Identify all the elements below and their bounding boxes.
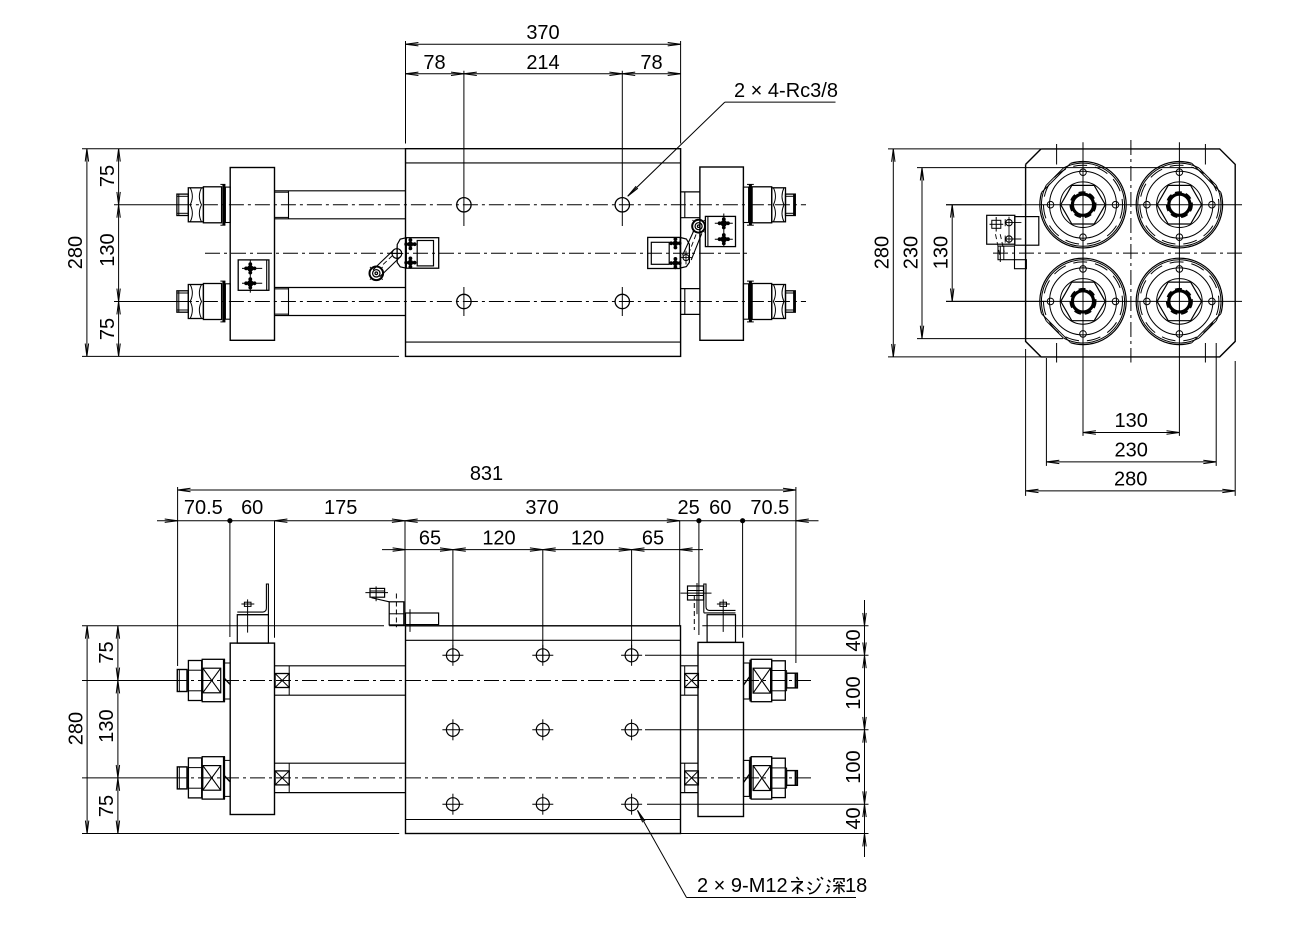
end view: hole axis horizontal upper [946,204,1242,206]
top view: right toggle clamp bracket [648,237,681,268]
front view: right bearing cross square [753,766,771,791]
dim 280 end view left: extensions [888,148,1041,150]
front view: right bearing cross square [753,668,771,693]
front view: left rod tip [177,767,187,789]
top view: left box screw 2 [247,280,253,286]
svg-text:370: 370 [525,497,558,519]
front view: rod tube left [275,665,406,667]
top view: left rod threaded tip [177,194,188,215]
dim row2: dimension line [157,520,819,522]
front view: right bearing block [751,757,772,799]
front view: right hex nut [772,661,786,700]
end view: boss phantom circle [1140,165,1219,244]
svg-text:280: 280 [872,236,894,269]
front view: right flange spacer [744,663,750,699]
top view: left clamp pivot [392,249,402,259]
end view: rod hex nut [1157,282,1202,321]
svg-text:78: 78 [640,52,662,74]
front view: rod tube right [681,762,699,764]
front view: 3x3 grid of M12 holes [446,649,459,662]
top view: port hole C [457,294,471,308]
end view: hole axis vertical right column [1178,142,1180,436]
end view: rod thread circle [1070,192,1095,217]
svg-text:370: 370 [526,22,559,44]
top view: right flange spacer [743,284,748,319]
top view: right mount flange bar [749,281,752,322]
top view: left flange spacer [225,187,230,222]
leader 2x4-Rc3/8 [725,101,836,103]
front view: rod tube left [275,762,406,764]
end view: vent holes [1047,201,1054,208]
svg-text:65: 65 [642,527,664,549]
end view: corner flat chamfer lines [1192,314,1221,343]
top view: right flange spacer [743,187,748,222]
end view: corner flat chamfer lines [1042,314,1071,343]
front view: rod bearing left (crossed square) [275,674,289,688]
top view: middle centerline [205,252,750,254]
top view: rod collar step [288,191,290,219]
top view: left clamp knob [370,267,384,281]
front view: body upper inner edge [406,639,681,641]
top view: right hex nut [772,285,786,319]
top view: right box screw 1 [721,220,727,226]
dim 75/130/75 top view: dimension line [118,149,120,357]
svg-text:230: 230 [1115,439,1148,461]
top view: left hex nut [188,188,203,222]
end view: boss phantom circle [1044,165,1123,244]
svg-text:130: 130 [97,233,119,266]
top view: left box screw 1 [247,265,253,271]
end view: rod hex nut [1061,282,1106,321]
dim 280 end view left: dimension line [892,149,894,357]
top view: right clamp mount plate [680,238,689,269]
front view: left mount tabs and weld mark [224,759,230,761]
front view: right hex nut [772,758,786,797]
end view: rod core circle [1169,291,1190,312]
top view: rod centerline lower [114,301,177,303]
dim 78/214/78: extension lines [463,71,465,226]
svg-text:60: 60 [241,497,263,519]
front view: right plate clamp handle grip [688,586,704,600]
front view: left plate clamp mount block [237,615,268,643]
svg-text:831: 831 [470,463,503,485]
svg-text:120: 120 [482,527,515,549]
dim row 65/120/120/65: extension lines [452,550,454,662]
dim 230 end view bottom: dimension line [1046,461,1216,463]
end view: rod hex nut [1157,185,1202,224]
front view: left end plate [230,643,274,814]
svg-text:130: 130 [931,236,953,269]
top view: rod boss right [681,191,700,193]
top view: right rod threaded tip [786,194,796,215]
dim 831: dimension line [178,489,796,491]
end view: rod thread circle [1167,192,1192,217]
front view: left bearing cross square [203,766,221,791]
front view: left bearing block [202,659,224,701]
front view: right weld mark [744,677,750,685]
front view: right bearing block [751,659,772,701]
top view: right clamp screws [673,241,679,247]
front view: left hex nut [188,661,201,701]
end view: rod core circle [1072,194,1093,215]
top view: left clamp mount plate [397,238,406,269]
end view: boss phantom circle [1044,262,1123,341]
svg-text:2 × 4-Rc3/8: 2 × 4-Rc3/8 [734,80,838,102]
svg-text:120: 120 [571,527,604,549]
front view: right end plate [698,642,744,816]
front view: left hex nut [188,758,201,798]
end view: center horizontal dashdot [993,252,1245,254]
svg-text:78: 78 [423,52,445,74]
end view: bolt circle [1050,268,1117,335]
svg-text:214: 214 [526,52,559,74]
end view: hole axis vertical left column [1082,142,1084,436]
top view: main body slide table [406,149,681,357]
dim 78/214/78: dimension line [406,73,681,75]
svg-text:130: 130 [1115,410,1148,432]
top view: body upper inner edge [406,162,681,164]
top view: left rod collar [203,284,221,320]
top view: left plate screw box [238,260,269,290]
front view: center clamp hidden pin [395,594,397,628]
front view: right plate clamp bent tab [704,584,709,613]
top view: port hole B (2x4-Rc3/8) [615,198,629,212]
end view: rod thread circle [1070,289,1095,314]
top view: left rod collar [203,187,221,223]
svg-text:75: 75 [97,165,119,187]
dim 230 end view bottom: extensions [1045,358,1047,466]
dim 75/130/75 front view: dimension line [117,626,119,834]
dim 280 end view bottom: extensions [1025,349,1027,496]
front view: rod centerline upper [82,680,172,682]
end view: clamp step blocks [998,246,1015,260]
svg-text:25: 25 [677,497,699,519]
label kanji: neji fuka (thread depth) [791,877,845,894]
front view: right plate clamp screw [720,602,727,606]
end view: plate octagon outline [1026,149,1236,357]
leader 2x9-M12 thread note [687,897,857,899]
end view: vent holes [1144,298,1151,305]
front view: center clamp handle grip [370,588,385,597]
svg-text:75: 75 [96,641,118,663]
end view: rod thread circle [1167,289,1192,314]
end view: clamp plus symbol [992,220,1001,228]
end view: bolt circle [1146,171,1213,238]
front view: right rod tip [787,771,798,786]
front view: left bearing cross square [203,668,221,693]
top view: right hex nut [772,188,786,222]
top view: left hex nut [188,285,203,319]
top view: guide rod tube left [275,287,406,289]
end view: clamp mount bracket [1015,217,1039,246]
top view: left flange spacer [225,284,230,319]
svg-text:75: 75 [96,795,118,817]
dim 40/100/100/40 right: extension lines [702,625,868,627]
svg-text:75: 75 [97,318,119,340]
svg-text:40: 40 [843,629,865,651]
top view: right clamp knob [692,220,705,233]
end view: vent holes [1144,201,1151,208]
end view: rod core circle [1072,291,1093,312]
front view: body lower inner edge [406,819,681,821]
top view: rod collar step [288,288,290,316]
svg-text:70.5: 70.5 [184,497,223,519]
svg-text:130: 130 [96,709,118,742]
top view: left rod threaded tip [177,291,188,312]
front view: center clamp step block [389,602,404,625]
top view: rod boss right [681,288,700,290]
top view: right rod collar [752,187,772,223]
front view: rod bearing right (crossed square) [685,674,699,688]
front view: left plate clamp bent tab [263,584,268,615]
front view: left mount tabs and weld mark [224,662,230,664]
end view: hole axis horizontal lower [946,300,1242,302]
dim 130 end view bottom: dimension line [1083,432,1179,434]
top view: right end plate [700,167,744,340]
top view: right plate screw box [705,216,735,246]
front view: right clamp hidden pin [693,595,695,630]
front view: left plate clamp screw [244,602,251,606]
front view: right rod tip [787,673,798,688]
end view: bolt circle [1050,171,1117,238]
dim 280 left top view: dimension line [86,149,88,357]
front view: rod bearing right (crossed square) [685,771,699,785]
front view: rod tube right [681,665,699,667]
top view: left clamp screws [408,241,414,247]
top view: port hole D [615,294,629,308]
svg-text:2 × 9-M12: 2 × 9-M12 [697,875,788,897]
top view: body lower inner edge [406,341,681,343]
end view: cylinder boss outer circle with corner flat [1040,162,1126,248]
svg-text:18: 18 [845,875,867,897]
dim 230 end view left: extensions [917,167,1194,169]
top view: guide rod tube left [275,190,406,192]
front view: center clamp mount on body [406,613,439,625]
svg-text:65: 65 [419,527,441,549]
front view: right mount flange bar [749,757,751,799]
front view: right flange spacer [744,760,750,796]
end view: boss phantom circle [1140,262,1219,341]
front view: right weld mark [744,774,750,782]
svg-text:100: 100 [843,676,865,709]
top view: right box screw 2 [721,236,727,242]
front view: left bearing block [202,757,224,799]
end view: toggle clamp side body [987,215,1015,244]
end view: tangent tick lines [1056,144,1058,165]
top view: right clamp lever arm [683,230,702,260]
end view: clamp hidden lever [996,234,1001,258]
top view: left clamp lever arm [373,250,400,277]
front view: left plate clamp strip [237,611,263,613]
dim 280 left top view: extension lines [82,148,406,150]
dim 130 end view left: extensions [946,204,1022,206]
front view: rod centerline lower [82,777,172,779]
end view: corner flat chamfer lines [1042,163,1071,192]
end view: rod hex nut [1061,185,1106,224]
top view: left end plate [230,168,274,341]
svg-text:70.5: 70.5 [750,497,789,519]
front view: right mount flange bar [749,660,751,702]
dim 280 left front view: dimension line [86,626,88,834]
top view: left mount flange bar [222,281,225,322]
end view: cylinder boss outer circle with corner flat [1040,258,1126,344]
end view: cylinder boss outer circle with corner flat [1136,258,1222,344]
end view: cylinder boss outer circle with corner flat [1136,162,1222,248]
dim row 70.5/60/175/370/25/60/70.5: extension lines [229,521,231,637]
top view: left mount flange bar [222,184,225,225]
dim 230 end view left: dimension line [921,168,923,339]
end view: clamp side screws [1006,219,1012,225]
front view: left rod tip [177,670,187,692]
top view: port hole A [457,198,471,212]
svg-text:280: 280 [1114,468,1147,490]
svg-text:60: 60 [709,497,731,519]
dim 40/100/100/40: dimension line [864,600,866,857]
dim 831: extension lines [177,487,179,666]
top view: right rod threaded tip [786,291,796,312]
dim 370 top: dimension line [406,43,681,45]
svg-text:175: 175 [324,497,357,519]
end view: vent holes [1047,298,1054,305]
front view: main body [406,626,681,834]
svg-text:100: 100 [843,750,865,783]
svg-text:40: 40 [843,807,865,829]
top view: right clamp pivot cross [683,255,689,261]
svg-text:230: 230 [900,236,922,269]
dim 280 end view bottom: dimension line [1026,490,1236,492]
dim 130 end view left: dimension line [951,205,953,302]
front view: right plate clamp mount block [707,615,735,643]
end view: corner flat chamfer lines [1192,163,1221,192]
dim row3: dimension line [382,549,703,551]
front view: right plate clamp strip [709,609,736,611]
dim 370 top: extension lines [405,41,407,144]
top view: right mount flange bar [749,184,752,225]
top view: right rod collar [752,284,772,320]
end view: center vertical dashdot [1130,140,1132,363]
front view: rod bearing left (crossed square) [275,771,289,785]
end view: rod core circle [1169,194,1190,215]
svg-text:280: 280 [65,712,87,745]
top view: rod centerline upper [114,204,177,206]
top view: left toggle clamp bracket [406,238,438,269]
front view: center clamp handle shaft [372,598,390,602]
svg-text:280: 280 [65,236,87,269]
dim 280 left front view: extensions [82,625,384,627]
end view: bolt circle [1146,268,1213,335]
